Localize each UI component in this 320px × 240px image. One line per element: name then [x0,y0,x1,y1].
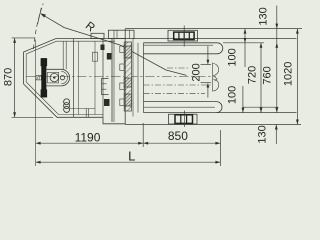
dim 200 arrows outside [207,46,210,98]
raised mast crossmember [109,30,135,38]
svg-text:130: 130 [256,125,268,143]
bottom roller centerline [184,111,186,128]
dim 130 top + 760 shared line [275,6,278,113]
chassis outline [24,39,126,118]
mast dark upper block [124,46,131,58]
mast dark mid block [124,78,131,87]
bottom dims mid ext [142,123,144,147]
drive unit bracket symbol [213,63,219,92]
tiller circle small [60,75,64,79]
tiller grip bar [41,58,46,97]
dim 720 [260,43,263,113]
tiller head inner cap arc [61,71,67,83]
svg-text:870: 870 [2,68,14,86]
top fork bar ext [223,42,264,44]
svg-text:L: L [128,149,135,164]
top fork bar bottom edge and cap [144,43,223,54]
dim 100 top [244,29,247,67]
machine centerline [26,76,216,78]
bottom leg outer edge [125,124,301,126]
mast side tabs [120,46,124,106]
top roller outer housing [168,30,198,41]
bottom roller dark block [175,115,193,124]
dark dots detail [104,99,110,106]
battery box lower partition [70,108,95,110]
raised box on body top [91,33,104,38]
bottom dims right ext [219,130,221,166]
svg-text:200: 200 [191,63,203,81]
E bracket mid [102,79,109,95]
aux dash-dot line upper [167,67,188,69]
dim 100 bottom [242,86,245,113]
radius tick [38,8,42,24]
dim 200 ext lines [201,64,212,66]
tiller head outline [46,69,69,86]
svg-text:100: 100 [227,86,239,104]
tiller head inner box [48,72,59,83]
tiller circle large [50,73,58,81]
coil bottom [64,99,70,105]
tiller stub [36,76,41,80]
small component top [93,52,98,61]
bottom roller outer housing [169,114,198,124]
dim 1020 [296,29,299,125]
bottom fork bar top edge and cap [144,102,223,113]
svg-text:100: 100 [226,48,238,66]
svg-text:850: 850 [168,129,188,143]
aux dash-dot line lower1 [144,84,212,86]
top roller dark block [174,32,194,39]
bottom fork slot ext [243,106,279,108]
dim 130 bottom [275,125,278,145]
drive housing bottom step [103,117,125,124]
mast hatched column [124,42,131,111]
dim 870 [13,38,16,117]
svg-text:720: 720 [247,66,259,84]
top leg inner wall [133,38,297,40]
mast dark lower block [124,94,131,106]
turning radius arc dashed [34,4,44,50]
top leg outer edge [125,28,302,30]
aux dash-dot line lower2 [144,93,206,95]
bottom fork bar slot line [144,106,216,108]
upper partition verticals [62,41,64,69]
dim line L [36,161,221,164]
svg-text:1190: 1190 [75,131,101,145]
radius line R [41,14,187,76]
svg-text:760: 760 [261,66,273,84]
svg-text:1020: 1020 [283,62,295,86]
top roller centerline [183,26,185,47]
rear axle extension line [35,40,37,167]
dim 870 ext lines [12,37,35,39]
bottom fork bar bottom edge long [144,112,297,114]
svg-text:130: 130 [257,7,269,25]
top fork bar slot line [144,44,214,46]
small dark latch [107,53,112,60]
body seam verticals [73,39,75,118]
carriage verticals [124,29,126,125]
top fork bar top edge [144,42,218,44]
chassis inner offset lines [26,41,115,114]
dim line 1190 / 850 [36,142,221,145]
